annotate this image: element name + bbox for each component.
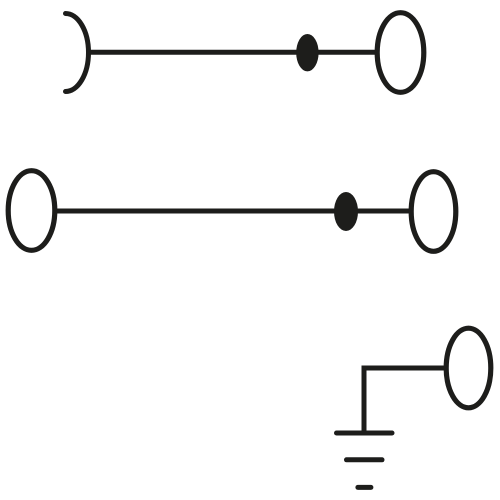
contact arc (row 1 left, open female contact)	[66, 14, 89, 92]
terminal circle (row 3 PE connection point)	[446, 328, 491, 408]
ground (earth symbol bar 3)	[358, 485, 371, 490]
junction dot (row 1 filled connection point)	[296, 34, 318, 71]
terminal circle (row 1 right connection point)	[377, 13, 424, 93]
terminal circle (row 2 left connection point)	[8, 171, 55, 251]
wire (row 1 horizontal conductor)	[89, 50, 378, 55]
wire (row 3 vertical segment down to ground)	[362, 366, 367, 434]
ground (earth symbol bar 1)	[337, 431, 393, 436]
junction dot (row 2 filled connection point)	[334, 192, 358, 231]
wire (row 2 horizontal conductor)	[55, 209, 412, 214]
wire (row 3 horizontal segment to PE circle)	[364, 366, 447, 371]
terminal circle (row 2 right connection point)	[411, 172, 456, 252]
ground (earth symbol bar 2)	[347, 457, 383, 462]
